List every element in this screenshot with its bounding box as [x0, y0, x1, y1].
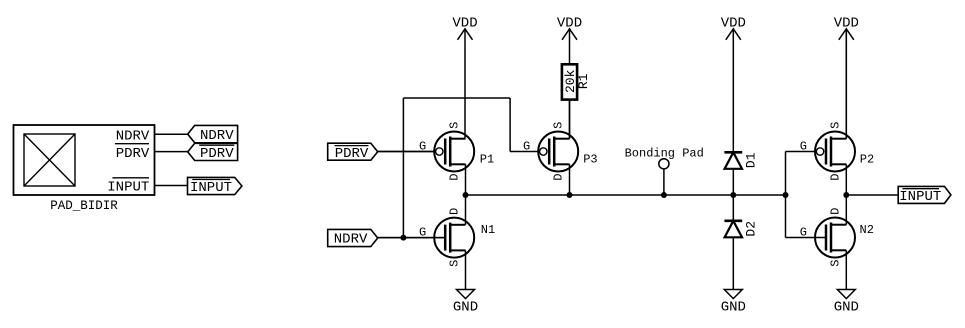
- svg-text:NDRV: NDRV: [200, 128, 234, 144]
- transistor P1: [378, 122, 495, 195]
- svg-text:S: S: [448, 122, 462, 129]
- svg-text:S: S: [829, 122, 843, 129]
- svg-text:D: D: [829, 208, 843, 215]
- node P2/N2 drain junction: [843, 192, 849, 198]
- svg-text:S: S: [829, 260, 843, 267]
- wire drains to INPUT port: [846, 194, 898, 196]
- node Bonding Pad: [625, 147, 704, 196]
- svg-text:PDRV: PDRV: [200, 146, 234, 162]
- svg-text:G: G: [419, 140, 426, 154]
- wire P2/N2 gate line: [785, 152, 787, 238]
- power VDD1: [452, 15, 477, 138]
- svg-text:GND: GND: [834, 300, 859, 316]
- svg-text:P3: P3: [583, 153, 597, 167]
- port PDRV: [328, 143, 378, 162]
- wire PAD_BIDIR NDRV stub: [154, 133, 187, 135]
- wire NDRV riser horizontal: [403, 97, 510, 99]
- port NDRV: [328, 229, 378, 247]
- port INPUT: [898, 186, 951, 205]
- node NDRV junction: [400, 235, 406, 241]
- resistor R1: [562, 64, 591, 99]
- svg-text:N1: N1: [481, 223, 495, 237]
- pin PDRV of PAD_BIDIR: [115, 144, 150, 162]
- svg-text:PDRV: PDRV: [335, 146, 369, 162]
- port PDRV (left block): [188, 143, 238, 162]
- transistor N2: [786, 195, 874, 290]
- node P1/N1 drain junction: [463, 192, 469, 198]
- power VDD2: [557, 15, 582, 64]
- diode D1: [724, 152, 758, 169]
- transistor P3: [510, 100, 598, 195]
- svg-text:D: D: [552, 174, 566, 181]
- wire NDRV riser vertical: [402, 98, 404, 238]
- power VDD4: [834, 15, 859, 138]
- wire NDRV to N1 gate: [378, 237, 446, 239]
- svg-text:P1: P1: [480, 153, 494, 167]
- port INPUT (left block): [188, 177, 242, 195]
- node P3 drain junction: [567, 192, 573, 198]
- svg-text:NDRV: NDRV: [334, 232, 368, 248]
- svg-text:P2: P2: [860, 153, 874, 167]
- diode D2: [724, 221, 758, 238]
- wire pad net main: [466, 194, 786, 196]
- svg-text:D2: D2: [744, 221, 759, 237]
- svg-text:G: G: [523, 140, 530, 154]
- ground GND3: [834, 290, 859, 316]
- node gate line junction: [783, 192, 789, 198]
- svg-text:S: S: [552, 122, 566, 129]
- svg-text:G: G: [800, 226, 807, 240]
- svg-text:GND: GND: [721, 300, 746, 316]
- svg-text:PDRV: PDRV: [116, 146, 150, 162]
- svg-text:NDRV: NDRV: [116, 128, 150, 144]
- transistor P2: [786, 29, 875, 195]
- wire D2 anode to GND2: [732, 237, 734, 289]
- ground GND2: [721, 290, 746, 316]
- svg-text:PAD_BIDIR: PAD_BIDIR: [50, 199, 118, 213]
- wire R1 to P3 source: [569, 100, 571, 139]
- wire NDRV riser drop to P3 gate: [509, 98, 511, 152]
- svg-text:R1: R1: [576, 73, 591, 89]
- svg-text:INPUT: INPUT: [190, 180, 232, 196]
- svg-text:Bonding Pad: Bonding Pad: [625, 147, 704, 161]
- svg-text:S: S: [448, 260, 462, 267]
- svg-text:D: D: [448, 174, 462, 181]
- transistor N1: [378, 195, 496, 290]
- svg-text:D: D: [829, 174, 843, 181]
- svg-text:D1: D1: [744, 152, 759, 168]
- wire pad net to D2 cathode: [732, 195, 734, 221]
- wire PAD_BIDIR PDRV stub: [154, 151, 187, 153]
- pin INPUT of PAD_BIDIR: [107, 178, 149, 196]
- svg-text:INPUT: INPUT: [107, 180, 149, 196]
- wire PAD_BIDIR INPUT stub: [154, 185, 187, 187]
- svg-text:GND: GND: [453, 300, 478, 316]
- node diode junction: [730, 192, 736, 198]
- power VDD3: [721, 15, 746, 152]
- svg-text:N2: N2: [860, 223, 874, 237]
- wire PDRV to P1 gate: [378, 151, 436, 153]
- svg-text:G: G: [419, 226, 426, 240]
- port NDRV (left block): [188, 125, 238, 144]
- svg-text:G: G: [800, 140, 807, 154]
- svg-text:D: D: [448, 208, 462, 215]
- node Bonding Pad junction: [661, 192, 667, 198]
- ground GND1: [453, 290, 478, 316]
- wire D1 anode to pad net: [732, 169, 734, 195]
- svg-text:INPUT: INPUT: [899, 189, 941, 205]
- symbol PAD_BIDIR: [14, 125, 155, 213]
